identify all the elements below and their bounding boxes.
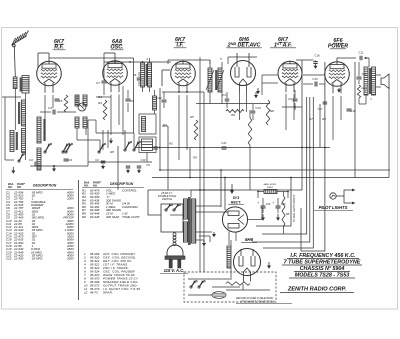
vol control element: [142, 139, 153, 151]
rail y62: [104, 61, 171, 63]
svg-text:SWITCH: SWITCH: [162, 197, 172, 201]
cap C21: [222, 146, 227, 148]
IF2 primary arrow: [206, 70, 214, 90]
V6 plate wire: [336, 58, 338, 62]
label V3 6K7 IF: [174, 37, 187, 49]
tube V1 6K7 RF: [37, 61, 62, 93]
vertical x160: [159, 88, 161, 148]
osc coil pair: [75, 95, 79, 106]
bus v 310: [309, 97, 311, 225]
parts list left rows: [6, 190, 75, 260]
corner wire 1: [256, 178, 291, 227]
phono wires: [188, 278, 230, 280]
heater arrow: [213, 232, 215, 234]
cap C7: [102, 80, 107, 82]
rect tube pins: [228, 232, 230, 246]
IF2 vertical left: [199, 57, 201, 272]
res R10: [226, 282, 250, 286]
svg-text:MODELS 7S28 - 7S53: MODELS 7S28 - 7S53: [295, 273, 350, 279]
wire y107: [282, 106, 302, 108]
ground V6: [338, 88, 340, 90]
wire 6h6 bottom: [242, 284, 244, 291]
bus v 325: [324, 62, 326, 148]
xfmr top wire: [190, 190, 192, 197]
svg-text:C7: C7: [96, 81, 100, 85]
svg-text:R9: R9: [322, 117, 326, 121]
svg-text:C3: C3: [68, 158, 72, 162]
cap C8: [126, 98, 131, 100]
volume pot: [248, 118, 252, 145]
svg-text:DESCRIPTION: DESCRIPTION: [33, 184, 57, 188]
bus v 320: [319, 104, 321, 148]
wire x190: [189, 148, 191, 178]
det coil primary: [141, 63, 145, 87]
corner wire 4: [263, 148, 313, 249]
antenna lead wire: [14, 46, 15, 77]
switch unit box: [139, 114, 156, 134]
tube 6H6 bottom: [234, 249, 261, 282]
V6 grid wires: [303, 74, 325, 76]
vol control box: [139, 137, 156, 153]
tube V4 6H6 2nd det: [231, 61, 256, 92]
res R4: [103, 100, 107, 120]
power section left edge: [117, 146, 119, 190]
cap C2b: [101, 160, 106, 162]
bus v 355: [354, 62, 356, 178]
ground C16: [315, 64, 317, 66]
top rail T1-T2: [49, 57, 134, 59]
svg-text:C12: C12: [156, 96, 162, 100]
cap C12: [162, 99, 167, 101]
core L3: [18, 102, 20, 124]
switch blades: [165, 209, 167, 211]
svg-text:+: +: [272, 201, 274, 205]
res R8b wire: [283, 192, 285, 197]
B plus arrow: [231, 184, 233, 190]
cap C18: [347, 108, 352, 110]
svg-text:NO.: NO.: [17, 185, 22, 189]
bus v 302: [301, 60, 303, 190]
switch S1d: [62, 151, 64, 153]
wire y133: [96, 132, 134, 134]
svg-text:12: 12: [84, 291, 88, 295]
h wire y103: [196, 103, 270, 105]
svg-text:I.F. FREQUENCY 456 K.C.: I.F. FREQUENCY 456 K.C.: [290, 253, 356, 259]
switch S1b: [44, 151, 46, 153]
res V3k: [194, 120, 198, 140]
parts list header left: [6, 182, 73, 190]
wire y92 T3: [162, 91, 204, 93]
svg-text:DESCRIPTION: DESCRIPTION: [110, 182, 134, 186]
corner wire 3: [252, 225, 310, 242]
svg-text:C9: C9: [288, 97, 292, 101]
switch S2a: [98, 151, 100, 153]
V5 pins: [285, 94, 287, 130]
C19 wires: [262, 198, 264, 206]
cap C11 top: [359, 56, 361, 61]
core T1: [43, 119, 45, 141]
label V1 6K7 RF: [53, 39, 66, 51]
bottom join line: [30, 165, 88, 167]
cap C9b: [137, 165, 142, 167]
switch unit coil: [142, 117, 146, 132]
switch box: [161, 204, 183, 232]
label V2 6A8 OSC: [110, 39, 124, 51]
svg-text:SPKR.: SPKR.: [103, 291, 113, 295]
antenna: [12, 31, 29, 47]
V2 grid cap: [114, 53, 116, 61]
wire C2 row: [34, 162, 36, 167]
IF2 wires: [209, 60, 211, 68]
parts list header right: [82, 180, 144, 187]
svg-text:R4: R4: [98, 95, 102, 99]
svg-text:R9: R9: [231, 113, 235, 117]
ground C20: [277, 214, 279, 218]
cap C10: [126, 165, 131, 167]
svg-text:R1: R1: [163, 123, 167, 127]
6H6 coil left: [227, 246, 231, 268]
V4 top wires: [236, 53, 238, 61]
parts list right rows: [82, 188, 141, 218]
bus v 313: [312, 97, 314, 148]
choke L11: [264, 190, 277, 194]
h bus 162 short: [88, 161, 152, 163]
h bus 190: [148, 189, 302, 191]
svg-text:NO.: NO.: [8, 185, 13, 189]
wire x301: [300, 208, 302, 251]
cap C19: [261, 205, 266, 207]
svg-text:22-950: 22-950: [13, 257, 24, 261]
osc small coil: [153, 96, 157, 110]
svg-text:C14: C14: [362, 72, 367, 76]
V3 pins: [178, 95, 180, 160]
osc small coil wire: [154, 90, 156, 96]
ground xfmr: [203, 240, 205, 243]
svg-text:200V: 200V: [66, 197, 75, 201]
res R8: [282, 196, 285, 226]
heater wire: [199, 235, 210, 237]
V1 plate top wire: [48, 58, 50, 61]
wire left col: [25, 126, 27, 129]
6H6 wires: [230, 240, 232, 246]
svg-text:C22: C22: [6, 257, 12, 261]
wire left border: [3, 96, 5, 98]
wire r1: [87, 120, 89, 166]
IF2 primary: [208, 68, 212, 92]
grid coil T1: [37, 117, 41, 143]
svg-text:6H6: 6H6: [245, 237, 254, 242]
svg-text:TO DIAL LIGHT CIRCUIT: TO DIAL LIGHT CIRCUIT: [293, 194, 296, 222]
speaker return: [388, 87, 390, 170]
speaker: [381, 74, 389, 89]
cap C4b: [225, 98, 230, 100]
cap C13: [251, 110, 256, 112]
det coil secondary: [148, 63, 152, 87]
res R6: [266, 100, 270, 125]
wire v1 k: [44, 112, 46, 140]
svg-text:CHASSIS Nº 5904: CHASSIS Nº 5904: [300, 266, 345, 272]
rect tube wires: [248, 219, 262, 221]
wire xfmr top: [368, 58, 370, 67]
svg-text:R5: R5: [190, 115, 194, 119]
coil L1: [13, 77, 17, 89]
svg-text:R6: R6: [270, 109, 274, 113]
rect feed 1: [220, 170, 222, 207]
V1 pins wires: [44, 95, 46, 112]
cap C3: [64, 158, 69, 160]
phono box: [184, 272, 276, 302]
res R9b: [226, 110, 244, 113]
ground S2a: [102, 165, 104, 167]
C20 wires: [277, 198, 279, 206]
cap on bus: [153, 146, 158, 148]
ground v1: [53, 166, 55, 169]
switch S1c: [65, 151, 67, 153]
svg-text:CONTROL: CONTROL: [122, 188, 137, 192]
xfmr wires right: [196, 205, 222, 207]
svg-text:FIELD: FIELD: [267, 187, 274, 189]
svg-text:200V: 200V: [66, 257, 75, 261]
rectifier tube: [222, 207, 247, 232]
svg-text:C16: C16: [314, 54, 320, 58]
svg-text:CANDOHM: CANDOHM: [122, 205, 138, 209]
svg-text:C9: C9: [146, 163, 150, 167]
switch S2b: [124, 149, 126, 151]
wire osc: [76, 95, 78, 106]
cap C4: [52, 110, 54, 115]
cap C17: [323, 101, 328, 103]
svg-text:C11: C11: [359, 51, 364, 55]
label V5 6K7 1st AF: [270, 37, 296, 49]
rect feed 2: [224, 178, 226, 211]
top rail V3: [168, 59, 210, 61]
ground ant: [12, 167, 14, 171]
IF2 core: [215, 70, 217, 90]
ground C10: [127, 169, 129, 170]
label V6 6F6 power: [328, 38, 348, 50]
svg-text:R8: R8: [110, 150, 114, 154]
cap C16: [313, 61, 318, 63]
svg-text:C19: C19: [266, 203, 271, 206]
svg-text:C4: C4: [48, 106, 52, 110]
ground C9b: [138, 169, 140, 170]
xfmr wires left: [170, 214, 183, 216]
svg-text:R3: R3: [193, 156, 197, 160]
corner wire 5: [301, 148, 325, 252]
pilot wires: [336, 190, 352, 196]
svg-text:C2: C2: [29, 158, 33, 162]
osc coil pair lower: [75, 117, 79, 128]
tube V3 6K7 IF: [171, 61, 196, 93]
cap C5: [55, 98, 60, 100]
core L4: [16, 132, 18, 150]
svg-text:RECT.: RECT.: [231, 200, 242, 204]
svg-text:C10: C10: [141, 158, 146, 162]
speaker wires: [376, 74, 381, 76]
cap C6: [137, 77, 142, 79]
tube V5 6K7 1st AF: [278, 61, 302, 93]
svg-text:TONE CONT.: TONE CONT.: [122, 215, 141, 219]
IF2 secondary: [218, 68, 222, 92]
wire s2b: [124, 130, 126, 148]
phono switches: [190, 286, 192, 288]
V1 cathode resistor: [64, 95, 68, 112]
svg-text:5Y3: 5Y3: [233, 196, 239, 200]
parts list divider: [78, 180, 80, 300]
switch S1a: [18, 160, 20, 162]
svg-text:PILOT LIGHTS: PILOT LIGHTS: [319, 205, 348, 210]
avc bus: [167, 126, 169, 190]
V2 pin wires: [110, 95, 112, 136]
wire field down: [358, 98, 360, 104]
top right rail: [337, 57, 356, 59]
wire ant bus: [2, 96, 21, 98]
wire ant lead2: [14, 89, 16, 131]
IF2 secondary arrow: [216, 70, 224, 90]
svg-text:ATTACHMENT CONNECTIONS: ATTACHMENT CONNECTIONS: [239, 300, 275, 303]
cap C20: [276, 205, 281, 207]
svg-text:7 TUBE SUPERHETERODYNE: 7 TUBE SUPERHETERODYNE: [284, 260, 361, 266]
V3 grid wires: [162, 69, 170, 71]
cap C9: [293, 98, 298, 100]
xfmr bottom wire: [365, 95, 367, 104]
ground 6H6: [255, 92, 257, 95]
svg-text:R4: R4: [98, 101, 102, 105]
h bus 177: [152, 177, 389, 179]
wire vc down: [146, 153, 148, 163]
power transformer: [184, 197, 196, 245]
svg-text:MAG. SPKR.: MAG. SPKR.: [264, 183, 277, 186]
svg-text:ZENITH RADIO CORP.: ZENITH RADIO CORP.: [287, 287, 347, 293]
svg-text:C21: C21: [221, 141, 227, 145]
svg-text:C17: C17: [318, 107, 323, 111]
coil L4: [10, 131, 14, 152]
svg-text:FIELD: FIELD: [361, 88, 368, 90]
cap C15: [314, 82, 316, 87]
svg-text:NO.: NO.: [84, 183, 89, 187]
padder cap C6: [78, 103, 86, 111]
bus dots: [159, 147, 326, 193]
svg-text:C13: C13: [255, 106, 261, 110]
field coil: [357, 85, 360, 98]
svg-text:46-73: 46-73: [90, 291, 98, 295]
pilot wire 2: [344, 196, 352, 203]
box feed wires: [165, 222, 167, 232]
coil T1b: [37, 148, 41, 170]
bus elbow x160: [159, 148, 161, 170]
pilot lamp: [330, 193, 336, 199]
cord twist: [173, 233, 176, 246]
h bus 148: [135, 147, 330, 149]
svg-text:63-448: 63-448: [90, 215, 100, 219]
svg-text:R2: R2: [169, 142, 173, 146]
wire osc join: [77, 139, 100, 141]
switch feed: [148, 190, 161, 215]
corner wire 2: [262, 190, 307, 234]
cap C14: [357, 76, 362, 78]
V4 pin wires: [239, 91, 241, 120]
avc bus stub: [162, 125, 168, 127]
bus v 307: [306, 97, 308, 190]
V5 wires left: [262, 74, 278, 76]
svg-text:.02 MFD: .02 MFD: [31, 257, 43, 261]
6H6 ground: [268, 262, 270, 266]
V1 grid cap wire: [48, 53, 50, 61]
det coil wires: [142, 62, 144, 63]
choke wires: [258, 191, 264, 193]
output transformer: [364, 67, 376, 95]
tube V6 6F6 POWER: [325, 61, 350, 93]
coil L5: [22, 129, 26, 153]
coil L2 core: [20, 78, 22, 92]
svg-text:C4: C4: [222, 93, 226, 97]
svg-text:R8: R8: [286, 212, 290, 216]
det coil core: [146, 64, 148, 86]
svg-text:115 V. A.C.: 115 V. A.C.: [164, 268, 185, 273]
svg-text:NO.: NO.: [93, 183, 98, 187]
V6 pins down: [332, 96, 334, 140]
switch S2c: [133, 149, 135, 151]
ground C19: [262, 214, 264, 218]
svg-text:+: +: [257, 201, 259, 205]
label V4 6H6 2nd det: [226, 37, 262, 49]
coil L3: [22, 100, 26, 126]
ground V2: [110, 138, 112, 141]
wire s2a: [102, 130, 104, 150]
h bus 170: [160, 169, 390, 171]
parts list right rows block2: [83, 252, 140, 295]
svg-text:C5: C5: [59, 99, 63, 103]
svg-text:R9: R9: [82, 215, 86, 219]
phono oval: [212, 292, 226, 299]
svg-text:R7: R7: [309, 117, 313, 121]
AC plug: [165, 245, 185, 268]
ground V4: [257, 88, 259, 91]
top rail V2 drop: [133, 58, 135, 133]
svg-text:C15: C15: [312, 77, 318, 81]
svg-text:C2: C2: [95, 158, 99, 162]
svg-text:300 OHM: 300 OHM: [106, 215, 119, 219]
coil L2: [22, 76, 29, 94]
wire y97 V2: [96, 96, 111, 98]
tube V2 6A8 OSC: [103, 60, 128, 92]
